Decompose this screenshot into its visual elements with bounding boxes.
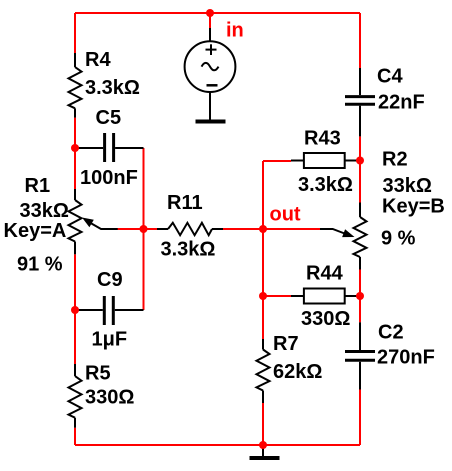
- svg-text:330Ω: 330Ω: [301, 308, 350, 330]
- svg-text:R1: R1: [25, 175, 51, 197]
- svg-text:22nF: 22nF: [378, 92, 425, 114]
- svg-text:330Ω: 330Ω: [85, 387, 134, 409]
- svg-text:3.3kΩ: 3.3kΩ: [85, 77, 140, 99]
- svg-text:R7: R7: [273, 333, 299, 355]
- svg-text:9 %: 9 %: [381, 228, 416, 250]
- svg-text:Key=A: Key=A: [4, 220, 67, 242]
- svg-text:C5: C5: [96, 107, 122, 129]
- svg-text:3.3kΩ: 3.3kΩ: [161, 239, 216, 261]
- svg-text:R5: R5: [85, 363, 111, 385]
- svg-text:33kΩ: 33kΩ: [20, 200, 69, 222]
- svg-text:C4: C4: [377, 66, 403, 88]
- svg-text:100nF: 100nF: [80, 167, 138, 189]
- svg-text:R4: R4: [85, 49, 111, 71]
- svg-text:in: in: [226, 20, 244, 42]
- svg-text:33kΩ: 33kΩ: [383, 175, 432, 197]
- svg-text:R11: R11: [167, 192, 203, 214]
- svg-text:out: out: [270, 204, 301, 226]
- svg-text:3.3kΩ: 3.3kΩ: [298, 174, 353, 196]
- svg-text:C2: C2: [378, 322, 404, 344]
- svg-text:Key=B: Key=B: [382, 196, 445, 218]
- svg-text:R2: R2: [382, 149, 408, 171]
- svg-text:62kΩ: 62kΩ: [273, 361, 322, 383]
- svg-text:91 %: 91 %: [17, 254, 63, 276]
- svg-text:270nF: 270nF: [377, 347, 435, 369]
- svg-text:R44: R44: [306, 263, 344, 285]
- svg-text:C9: C9: [97, 269, 123, 291]
- svg-text:R43: R43: [304, 128, 341, 150]
- svg-text:1μF: 1μF: [92, 329, 128, 351]
